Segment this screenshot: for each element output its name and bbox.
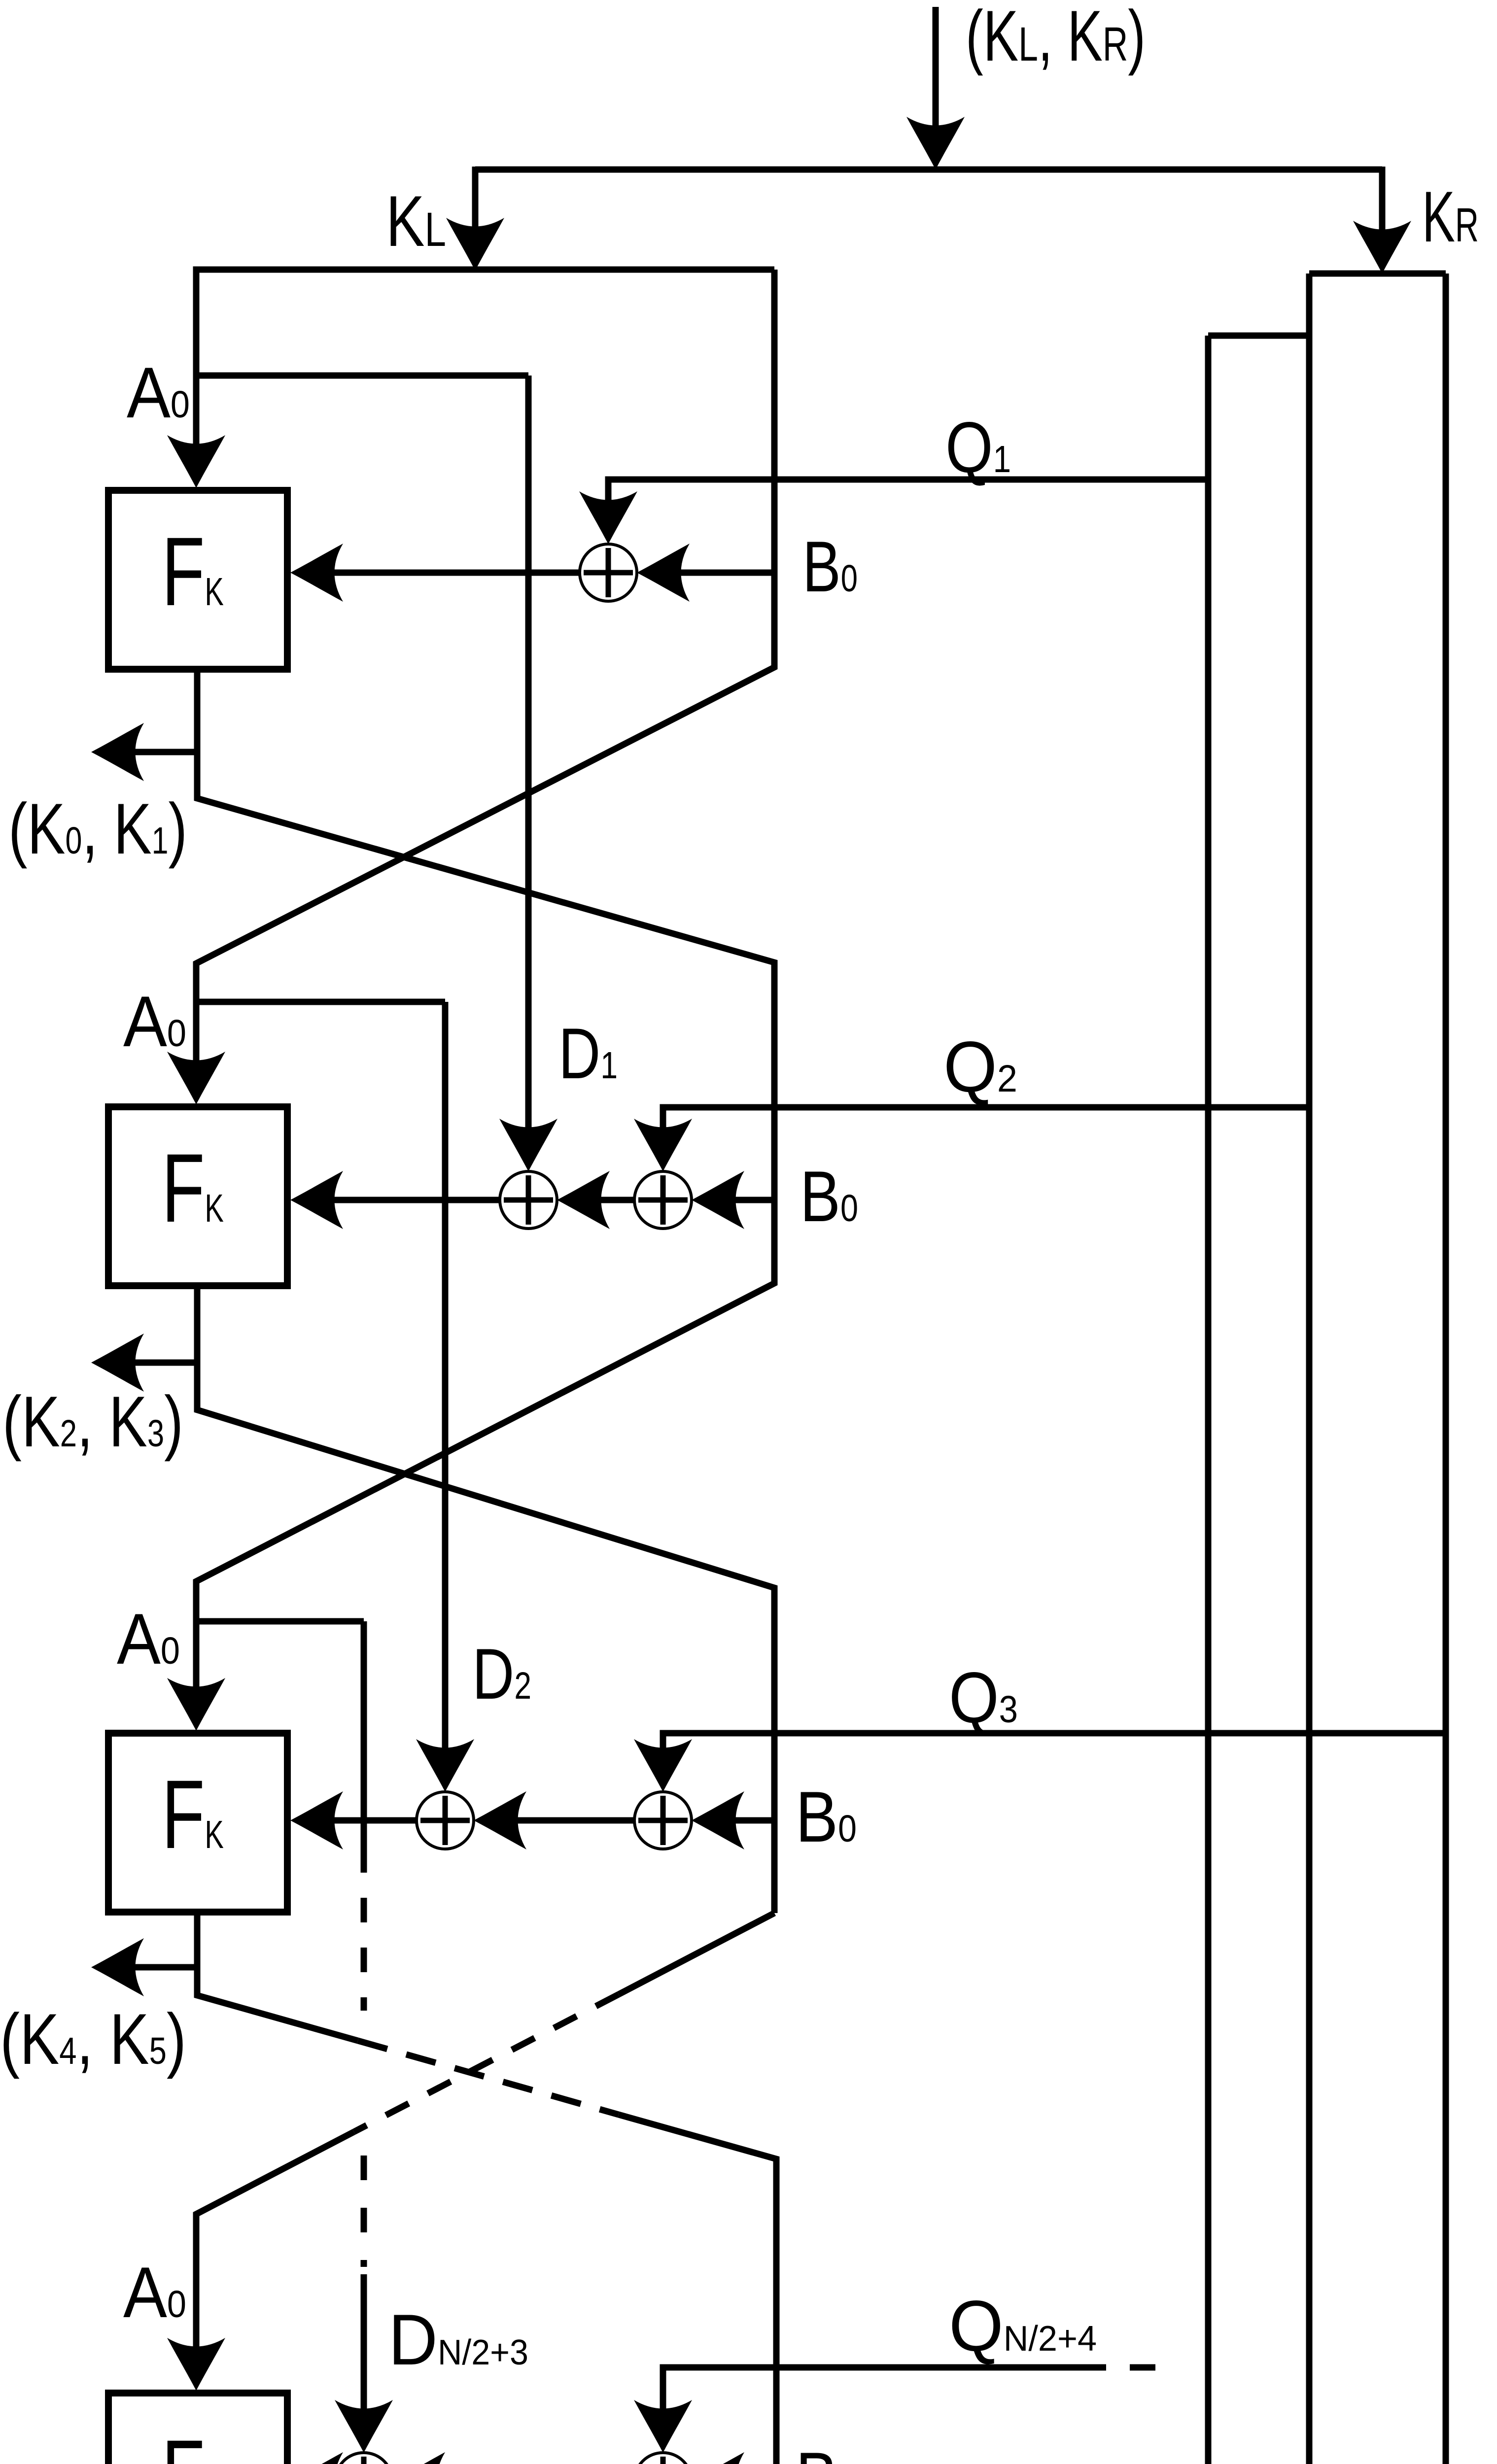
wire round3 B cross diagonal solid part xyxy=(619,1913,774,1994)
xor4R xyxy=(634,2453,692,2464)
wire Q2 xyxy=(663,1107,1309,1137)
node arrow into xor2L right xyxy=(557,1171,610,1229)
wire D3 vertical solid bottom xyxy=(361,2274,367,2418)
wire Q4 trailing dash xyxy=(1130,2364,1155,2371)
node A0 round3 arrow into FK3 xyxy=(167,1678,225,1731)
node arrow into FK2 right xyxy=(290,1171,343,1229)
svg-text:KR: KR xyxy=(1422,176,1479,257)
wire Q1 xyxy=(608,479,1208,510)
wire B0 round3 segment middle xyxy=(508,1817,634,1824)
node arrow into FK4 right xyxy=(290,2452,343,2464)
wire B0 round3 segment right xyxy=(726,1817,774,1824)
node arrow into xor4L right xyxy=(392,2452,445,2464)
wire A0 round1 branch xyxy=(196,373,528,379)
wire FK1 output down xyxy=(126,669,197,752)
wire B0 round2 segment left xyxy=(325,1197,500,1203)
svg-text:B0: B0 xyxy=(802,526,858,607)
FK3 box xyxy=(108,1733,287,1912)
xor1 xyxy=(580,544,637,601)
node Q3 arrow into xor3R xyxy=(634,1739,692,1792)
xor3L xyxy=(417,1792,474,1849)
node B0 round1 arrow into xor1 xyxy=(637,544,690,602)
node arrow into xor4R right xyxy=(692,2452,744,2464)
wire FK3 output down xyxy=(126,1912,197,1967)
node arrow into FK1 right xyxy=(290,544,343,602)
node arrow into xor2R right xyxy=(692,1171,744,1229)
wire B0 round1 right segment xyxy=(671,570,774,576)
node arrow into FK3 right xyxy=(290,1791,343,1849)
node D3 arrow into xor4L xyxy=(335,2400,393,2453)
wire KL drop xyxy=(472,167,479,236)
svg-text:(KL, KR): (KL, KR) xyxy=(966,0,1146,76)
node output2 arrow xyxy=(91,1334,144,1392)
wire KL horizontal xyxy=(196,270,774,273)
svg-text:Q1: Q1 xyxy=(945,407,1011,487)
wire B0 round2 segment middle xyxy=(592,1197,634,1203)
svg-text:KL: KL xyxy=(386,181,446,261)
wire D1 vertical xyxy=(525,376,532,1137)
node D1 arrow into xor2L xyxy=(499,1119,557,1171)
wire round3 out diagonal dashed part xyxy=(358,2041,619,2115)
wire round1 out diagonal to round2 B vertical xyxy=(196,752,774,1696)
wire round3 B cross diagonal dashed part xyxy=(354,1994,619,2132)
wire D3 vertical dashed upper xyxy=(361,1898,367,2011)
node output1 arrow xyxy=(91,723,144,781)
wire D2 vertical xyxy=(442,1002,449,1757)
svg-text:Q2: Q2 xyxy=(943,1027,1017,1107)
svg-text:B0: B0 xyxy=(796,2437,857,2464)
wire B round1 vertical and cross diagonal to round2 A xyxy=(196,270,774,1071)
svg-text:A0: A0 xyxy=(127,352,190,433)
svg-text:FK: FK xyxy=(162,517,224,626)
svg-text:FK: FK xyxy=(162,2420,224,2464)
wire A0 round2 branch xyxy=(196,999,445,1005)
wire round3 B cross diagonal solid end into round4 A xyxy=(196,2132,354,2356)
svg-text:A0: A0 xyxy=(117,1599,180,1679)
wire Q3 xyxy=(663,1733,1446,1757)
wire round3 out diagonal solid part xyxy=(197,1967,358,2041)
FK4 box xyxy=(108,2393,287,2464)
wire bus middle top edge xyxy=(1208,333,1309,339)
svg-text:FK: FK xyxy=(162,1760,224,1869)
wire B0 round3 segment left xyxy=(325,1817,417,1824)
wire Q4 xyxy=(663,2367,1106,2418)
svg-text:DN/2+3: DN/2+3 xyxy=(388,2299,528,2380)
svg-text:(K0, K1): (K0, K1) xyxy=(8,788,187,869)
node A0 round1 arrow into FK1 xyxy=(167,435,225,488)
node Q2 arrow into xor2R xyxy=(634,1119,692,1171)
wire D3 vertical dashed lower xyxy=(361,2156,367,2267)
wire B0 round2 segment right xyxy=(726,1197,774,1203)
xor2L xyxy=(500,1171,557,1229)
node output3 arrow xyxy=(91,1938,144,1996)
svg-text:B0: B0 xyxy=(796,1777,857,1857)
wire round4 B vertical with solid diagonal end xyxy=(619,2115,776,2464)
wire bus KR1 vertical xyxy=(1306,274,1313,2464)
node KR arrow xyxy=(1353,221,1411,274)
node A0 round2 arrow into FK2 xyxy=(167,1052,225,1104)
svg-text:Q3: Q3 xyxy=(949,1657,1018,1738)
svg-text:A0: A0 xyxy=(123,981,186,1061)
xor3R xyxy=(634,1792,692,1849)
FK1 box xyxy=(108,490,287,669)
svg-text:A0: A0 xyxy=(123,2252,186,2332)
node arrow into xor3R right xyxy=(692,1791,744,1849)
wire (KL,KR) input vertical xyxy=(933,7,939,135)
node D2 arrow into xor3L xyxy=(416,1739,474,1792)
FK2 box xyxy=(108,1107,287,1286)
wire round2 out diagonal to round3 B vertical xyxy=(197,1363,774,1913)
wire KR drop xyxy=(1379,167,1386,240)
svg-text:B0: B0 xyxy=(800,1156,858,1236)
svg-text:QN/2+4: QN/2+4 xyxy=(949,2286,1097,2366)
node (KL,KR) input arrow xyxy=(906,117,965,170)
svg-text:D1: D1 xyxy=(558,1013,618,1094)
wire B0 round1 left segment xyxy=(325,570,580,576)
wire A0 round3 branch xyxy=(196,1618,364,1625)
node A0 round4 arrow into FK4 xyxy=(167,2338,225,2391)
wire FK2 output down xyxy=(126,1286,197,1363)
svg-text:(K4, K5): (K4, K5) xyxy=(0,1999,186,2079)
wire bus KR2 vertical xyxy=(1443,274,1449,2464)
svg-text:FK: FK xyxy=(162,1133,224,1242)
wire bus right top edge xyxy=(1309,271,1446,277)
wire bus KR1xorKR2 vertical xyxy=(1205,336,1212,2464)
xor2R xyxy=(634,1171,692,1229)
node Q4 arrow into xor4R xyxy=(634,2400,692,2453)
xor4L xyxy=(335,2453,392,2464)
svg-text:D2: D2 xyxy=(472,1634,531,1714)
node Q1 arrow into xor1 xyxy=(579,491,637,544)
node KL arrow xyxy=(446,218,504,271)
wire D3 vertical solid top xyxy=(361,1621,367,1873)
node arrow into xor3L right xyxy=(474,1791,526,1849)
wire A0 round1 vertical xyxy=(193,270,200,453)
wire top split horizontal xyxy=(475,167,1382,173)
svg-text:(K2, K3): (K2, K3) xyxy=(2,1381,183,1462)
